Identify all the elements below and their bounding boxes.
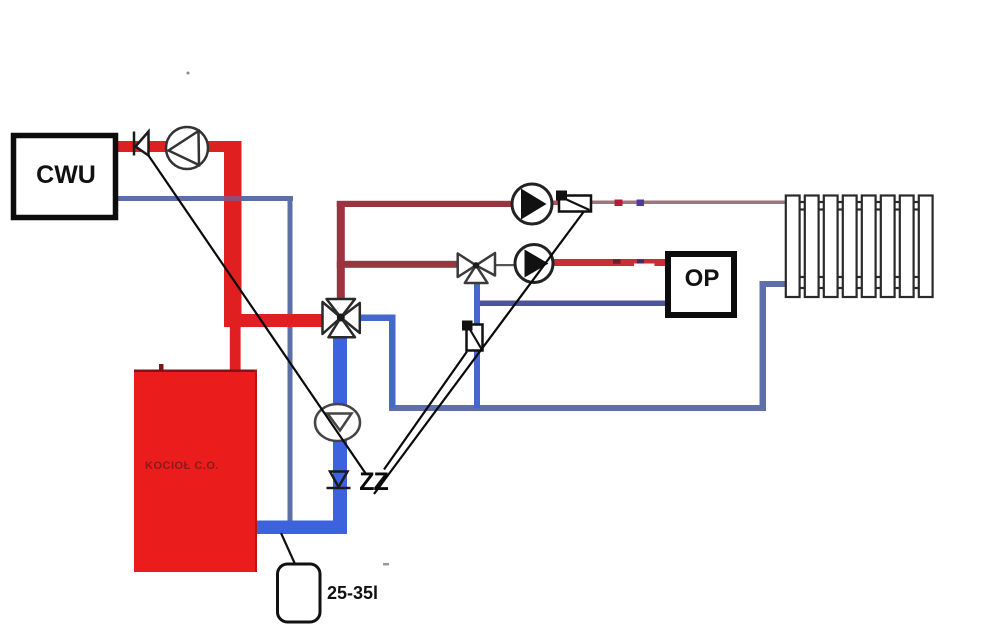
svg-text:25-35l: 25-35l bbox=[327, 583, 378, 603]
svg-text:OP: OP bbox=[685, 265, 720, 292]
svg-text:ZZ: ZZ bbox=[359, 468, 388, 496]
svg-text:KOCIOŁ C.O.: KOCIOŁ C.O. bbox=[145, 460, 219, 472]
svg-text:CWU: CWU bbox=[36, 161, 96, 189]
